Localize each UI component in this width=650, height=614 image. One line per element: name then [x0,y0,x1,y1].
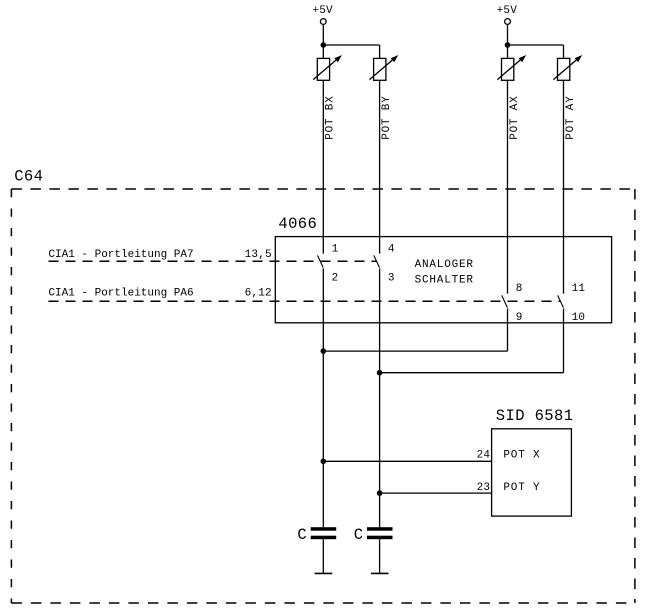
node junction dot (right +5V rail) [505,42,511,48]
capacitor C1 plates [311,527,337,539]
wire down to POT BY resistor [379,45,381,58]
capacitor C2 plates [367,527,393,539]
potentiometer POT AX arrow [497,55,526,80]
svg-text:POT AX: POT AX [509,95,521,139]
control net PA6 dashed line [49,300,561,302]
ground symbol (C2) [371,572,389,574]
switch S4 arm (pins 11-10) [558,295,564,307]
wire POT AX column below switch 3 down to bend [507,309,509,352]
svg-text:13,5: 13,5 [245,249,272,261]
svg-text:CIA1 - Portleitung PA6: CIA1 - Portleitung PA6 [48,287,193,299]
svg-text:POT BX: POT BX [325,95,337,139]
ground symbol (C1) [315,572,333,574]
svg-text:POT Y: POT Y [503,482,540,494]
svg-text:ANALOGER: ANALOGER [415,259,474,271]
wire from +5V terminal down to node (left) [322,24,324,45]
switch S2 arm (pins 4-3) [374,255,380,267]
potentiometer POT BX body [317,58,329,80]
node junction dot (left +5V rail) [321,42,327,48]
wire from pin 9 left to POT BX column [323,350,507,352]
svg-text:9: 9 [516,312,523,324]
potentiometer POT BY arrow [370,55,399,80]
node junction dot pin9 to BX line [321,348,327,354]
svg-text:11: 11 [572,283,586,295]
svg-text:2: 2 [332,273,339,285]
svg-text:3: 3 [388,273,395,285]
potentiometer POT AY body [558,58,570,80]
wire POT AY column below switch 4 down to bend [563,309,565,373]
wire POT BY column below switch 2 [379,269,381,528]
svg-text:CIA1 - Portleitung PA7: CIA1 - Portleitung PA7 [48,249,193,261]
IC 4066 box [275,237,611,323]
potentiometer POT BY body [374,58,386,80]
wire POT AY column into switch 4 [563,80,565,293]
svg-text:8: 8 [516,283,523,295]
switch S3 arm (pins 8-9) [502,295,508,307]
svg-text:POT BY: POT BY [381,95,393,139]
node junction dot POT X net [321,459,327,465]
svg-text:6,12: 6,12 [245,287,272,299]
svg-text:POT AY: POT AY [565,95,577,139]
wire down to POT AY resistor [563,45,565,58]
potentiometer POT AY arrow [553,55,582,80]
svg-text:C: C [297,526,307,544]
wire POT BY column into switch 2 [379,80,381,253]
svg-text:10: 10 [572,312,586,324]
wire POT BX column below switch 1 [322,269,324,528]
wire down to POT BX resistor [322,45,324,58]
wire capacitor C2 to ground [379,539,381,573]
svg-text:4066: 4066 [278,215,317,233]
svg-text:POT X: POT X [503,449,540,461]
wire down to POT AX resistor [507,45,509,58]
power +5V terminal circle (left) [320,19,326,25]
wire POT AX column into switch 3 [507,80,509,293]
wire POT Y net to SID pin 23 [380,492,492,494]
potentiometer POT BX arrow [313,55,342,80]
wire +5V rail horizontal (right pair) [508,44,564,46]
node junction dot pin10 to BY line [377,370,383,376]
wire POT BX column into switch 1 [322,80,324,253]
wire from +5V terminal down to node (right) [507,24,509,45]
node junction dot POT Y net [377,490,383,496]
label ANALOGER SCHALTER [415,259,474,287]
potentiometer POT AX body [502,58,514,80]
svg-text:C64: C64 [14,167,43,185]
control net PA7 dashed line [49,260,377,262]
svg-text:+5V: +5V [497,5,518,17]
svg-text:C: C [354,526,364,544]
wire capacitor C1 to ground [322,539,324,573]
svg-text:23: 23 [477,482,491,494]
switch S1 arm (pins 1-2) [318,255,324,267]
svg-text:SCHALTER: SCHALTER [415,275,474,287]
C64 dashed boundary box [11,189,635,603]
svg-text:+5V: +5V [312,5,333,17]
wire from pin 10 left to POT BY column [380,372,564,374]
svg-text:SID 6581: SID 6581 [496,407,574,425]
power +5V terminal circle (right) [505,19,511,25]
svg-text:1: 1 [332,243,339,255]
svg-text:4: 4 [388,243,395,255]
wire +5V rail horizontal (left pair) [323,44,379,46]
IC SID 6581 box [492,429,572,516]
wire POT X net to SID pin 24 [323,460,491,462]
svg-text:24: 24 [477,449,491,461]
